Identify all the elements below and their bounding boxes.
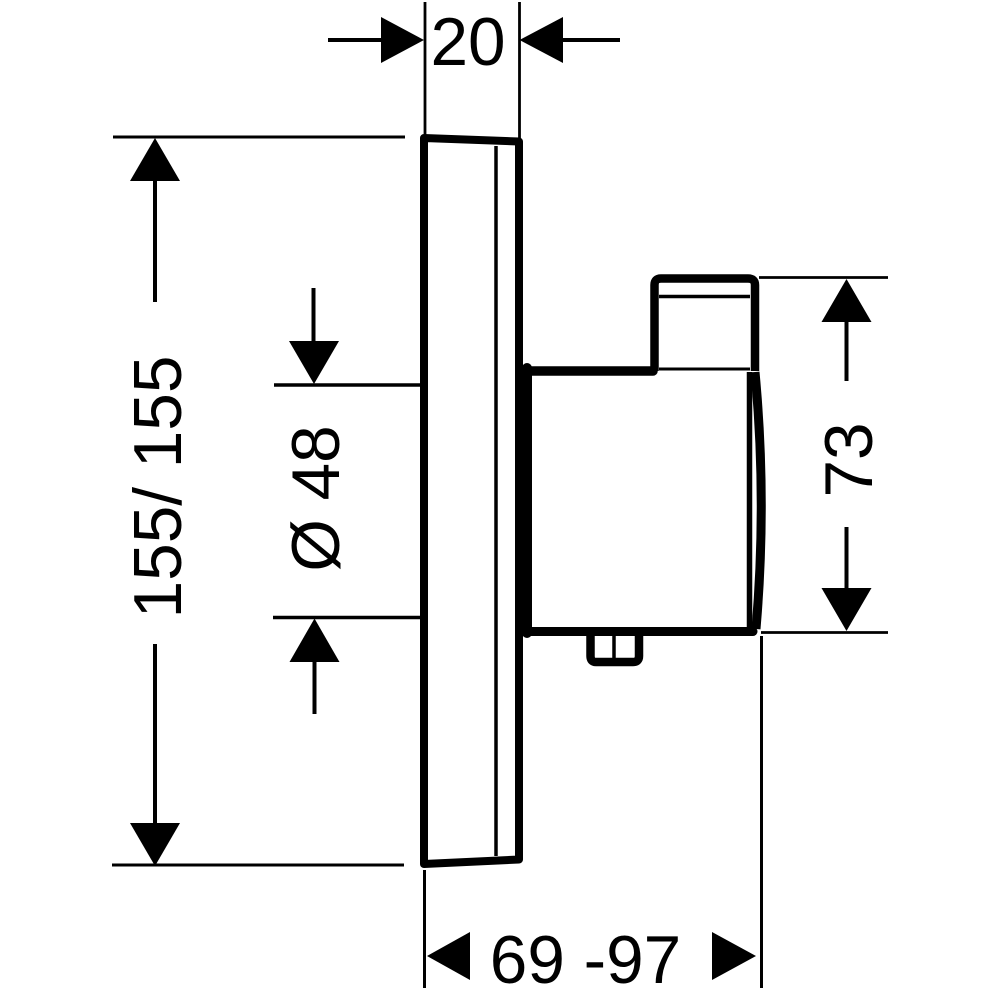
dim 155 top shaft: [153, 180, 157, 302]
dim 48 bottom tick: [273, 616, 424, 620]
dim 155 bottom extension line: [112, 864, 404, 867]
dim 69-97 right arrowhead: [712, 932, 756, 980]
dim 73 top arrowhead: [822, 279, 872, 322]
svg-text:73: 73: [812, 422, 887, 497]
dim 73 bottom extension line: [761, 631, 888, 634]
dim 20 left extension line: [424, 2, 427, 135]
knob base line: [659, 368, 750, 371]
escutcheon plate side view: [424, 138, 519, 864]
dim 20 right extension line: [518, 2, 521, 139]
plate inner edge line: [494, 146, 498, 856]
tab divider: [612, 633, 616, 659]
dim 69-97 left extension line: [423, 870, 426, 988]
knob upper detail line: [659, 295, 750, 299]
dim 48 bottom shaft: [313, 660, 317, 714]
dim 48 top arrowhead: [289, 341, 339, 384]
dim 73 bottom shaft: [845, 527, 849, 590]
dim 69-97 right extension line: [760, 636, 763, 988]
svg-text:20: 20: [430, 5, 505, 80]
body right edge bulge: [755, 372, 761, 629]
dim 155 bottom shaft: [153, 644, 157, 824]
dim 20 right arrowhead: [520, 17, 564, 63]
dim 73 bottom arrowhead: [822, 588, 872, 631]
svg-text:69 -97: 69 -97: [490, 923, 681, 998]
dim 69-97 left arrowhead: [427, 932, 470, 980]
dim 155 top extension line: [113, 136, 405, 139]
bottom tab: [591, 631, 640, 662]
dim 48 bottom arrowhead: [290, 619, 340, 663]
dim 73 top extension line: [759, 276, 888, 279]
dim 155 top arrowhead: [130, 138, 180, 181]
dim 20 left shaft: [328, 38, 383, 42]
body right inner line: [747, 372, 753, 629]
dim 48 top shaft: [312, 288, 316, 344]
dim 73 top shaft: [845, 320, 849, 381]
dim 48 top tick: [274, 383, 424, 387]
dim 155 bottom arrowhead: [130, 823, 180, 866]
svg-text:Ø 48: Ø 48: [279, 425, 354, 571]
dim 20 left arrowhead: [381, 17, 424, 63]
valve body housing: [524, 368, 753, 633]
shut-off knob on top: [655, 279, 756, 372]
dim 20 right shaft: [561, 38, 620, 42]
svg-text:155/ 155: 155/ 155: [121, 356, 196, 619]
